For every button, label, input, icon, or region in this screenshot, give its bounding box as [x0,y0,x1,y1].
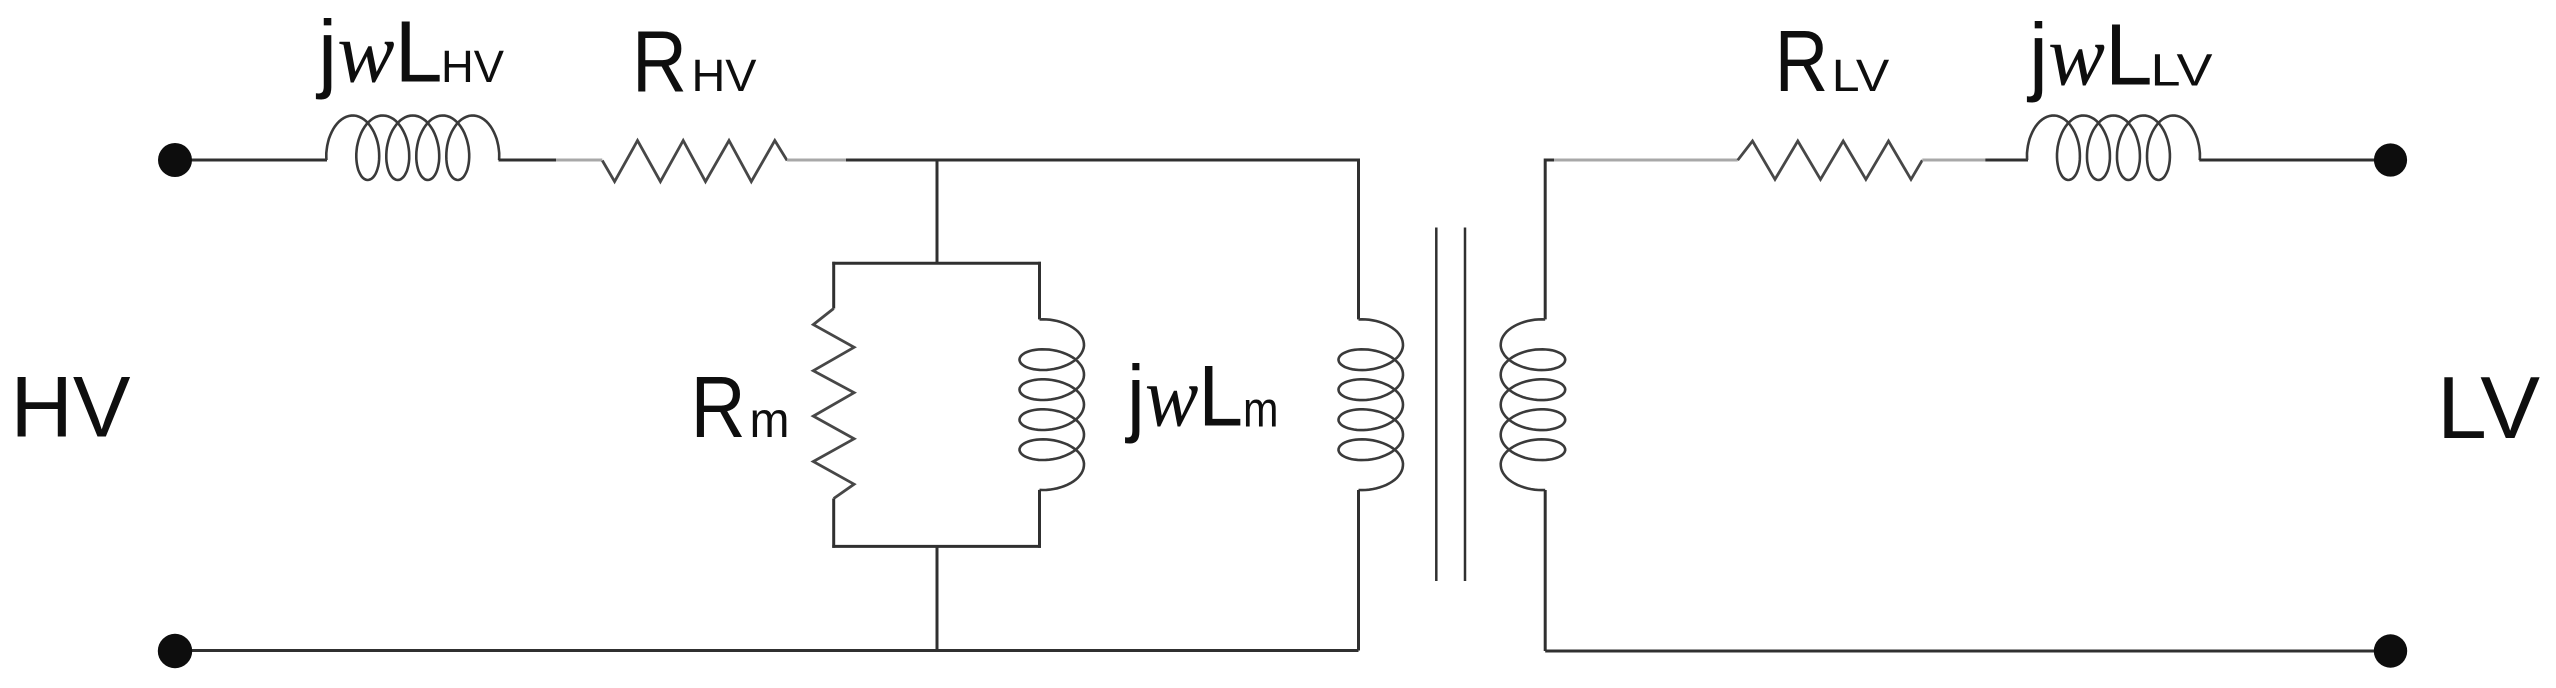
wire gray lead into R_HV [556,159,602,162]
resistor Rm [813,309,854,499]
node LV top terminal [2374,143,2407,176]
wire secondary top drop [1544,159,1547,320]
transformer primary winding [1339,319,1404,490]
svg-text:m: m [750,392,790,448]
wire primary bottom drop [1357,490,1360,651]
transformer secondary winding [1501,319,1566,490]
resistor R_HV [602,141,787,182]
svg-text:LV: LV [2437,358,2540,457]
svg-text:R: R [1775,13,1829,110]
wire parallel block top rail [832,262,1041,265]
svg-text:LV: LV [2151,45,2214,96]
wire bottom bus LV side [1545,650,2390,653]
wire Rm bottom lead [832,499,835,548]
resistor R_LV [1738,141,1923,179]
svg-text:jwL: jwL [1124,349,1243,445]
wire top-left HV lead [175,159,327,162]
inductor jwL_HV [326,116,499,181]
inductor jwL_LV [2027,116,2200,181]
svg-text:jwL: jwL [315,3,442,100]
wire jwLm bottom lead [1038,490,1041,548]
wire center tap down [936,546,939,650]
inductor jwLm [1020,319,1085,490]
svg-text:jwL: jwL [2026,7,2152,104]
wire jwL_LV to LV terminal [2199,159,2390,162]
wire jwLm top lead [1038,262,1041,320]
wire junction drop at node [936,159,939,264]
transformer core line 2 [1464,228,1467,582]
wire parallel block bottom rail [832,545,1041,548]
node HV bottom terminal [158,634,192,668]
node HV top terminal [158,143,192,177]
wire into jwL_LV [1985,159,2028,162]
wire gray lead out of R_HV [787,159,846,162]
wire bottom bus HV side [175,649,1359,652]
wire secondary bottom drop [1544,490,1547,651]
svg-text:HV: HV [11,359,131,455]
node LV bottom terminal [2374,634,2407,667]
svg-text:R: R [632,13,687,110]
wire secondary top dark [1545,159,1554,162]
wire top middle [846,159,1359,162]
wire Rm top lead [832,262,835,309]
svg-text:R: R [691,359,746,456]
svg-text:LV: LV [1832,50,1890,101]
wire coil to R_HV dark part [499,159,557,162]
svg-text:m: m [1243,382,1279,438]
wire primary top drop [1357,159,1360,320]
svg-text:HV: HV [441,41,505,92]
transformer core line 1 [1435,228,1438,582]
wire gray lead into R_LV [1554,159,1738,162]
wire gray lead out of R_LV [1922,159,1985,162]
svg-text:HV: HV [692,50,758,101]
